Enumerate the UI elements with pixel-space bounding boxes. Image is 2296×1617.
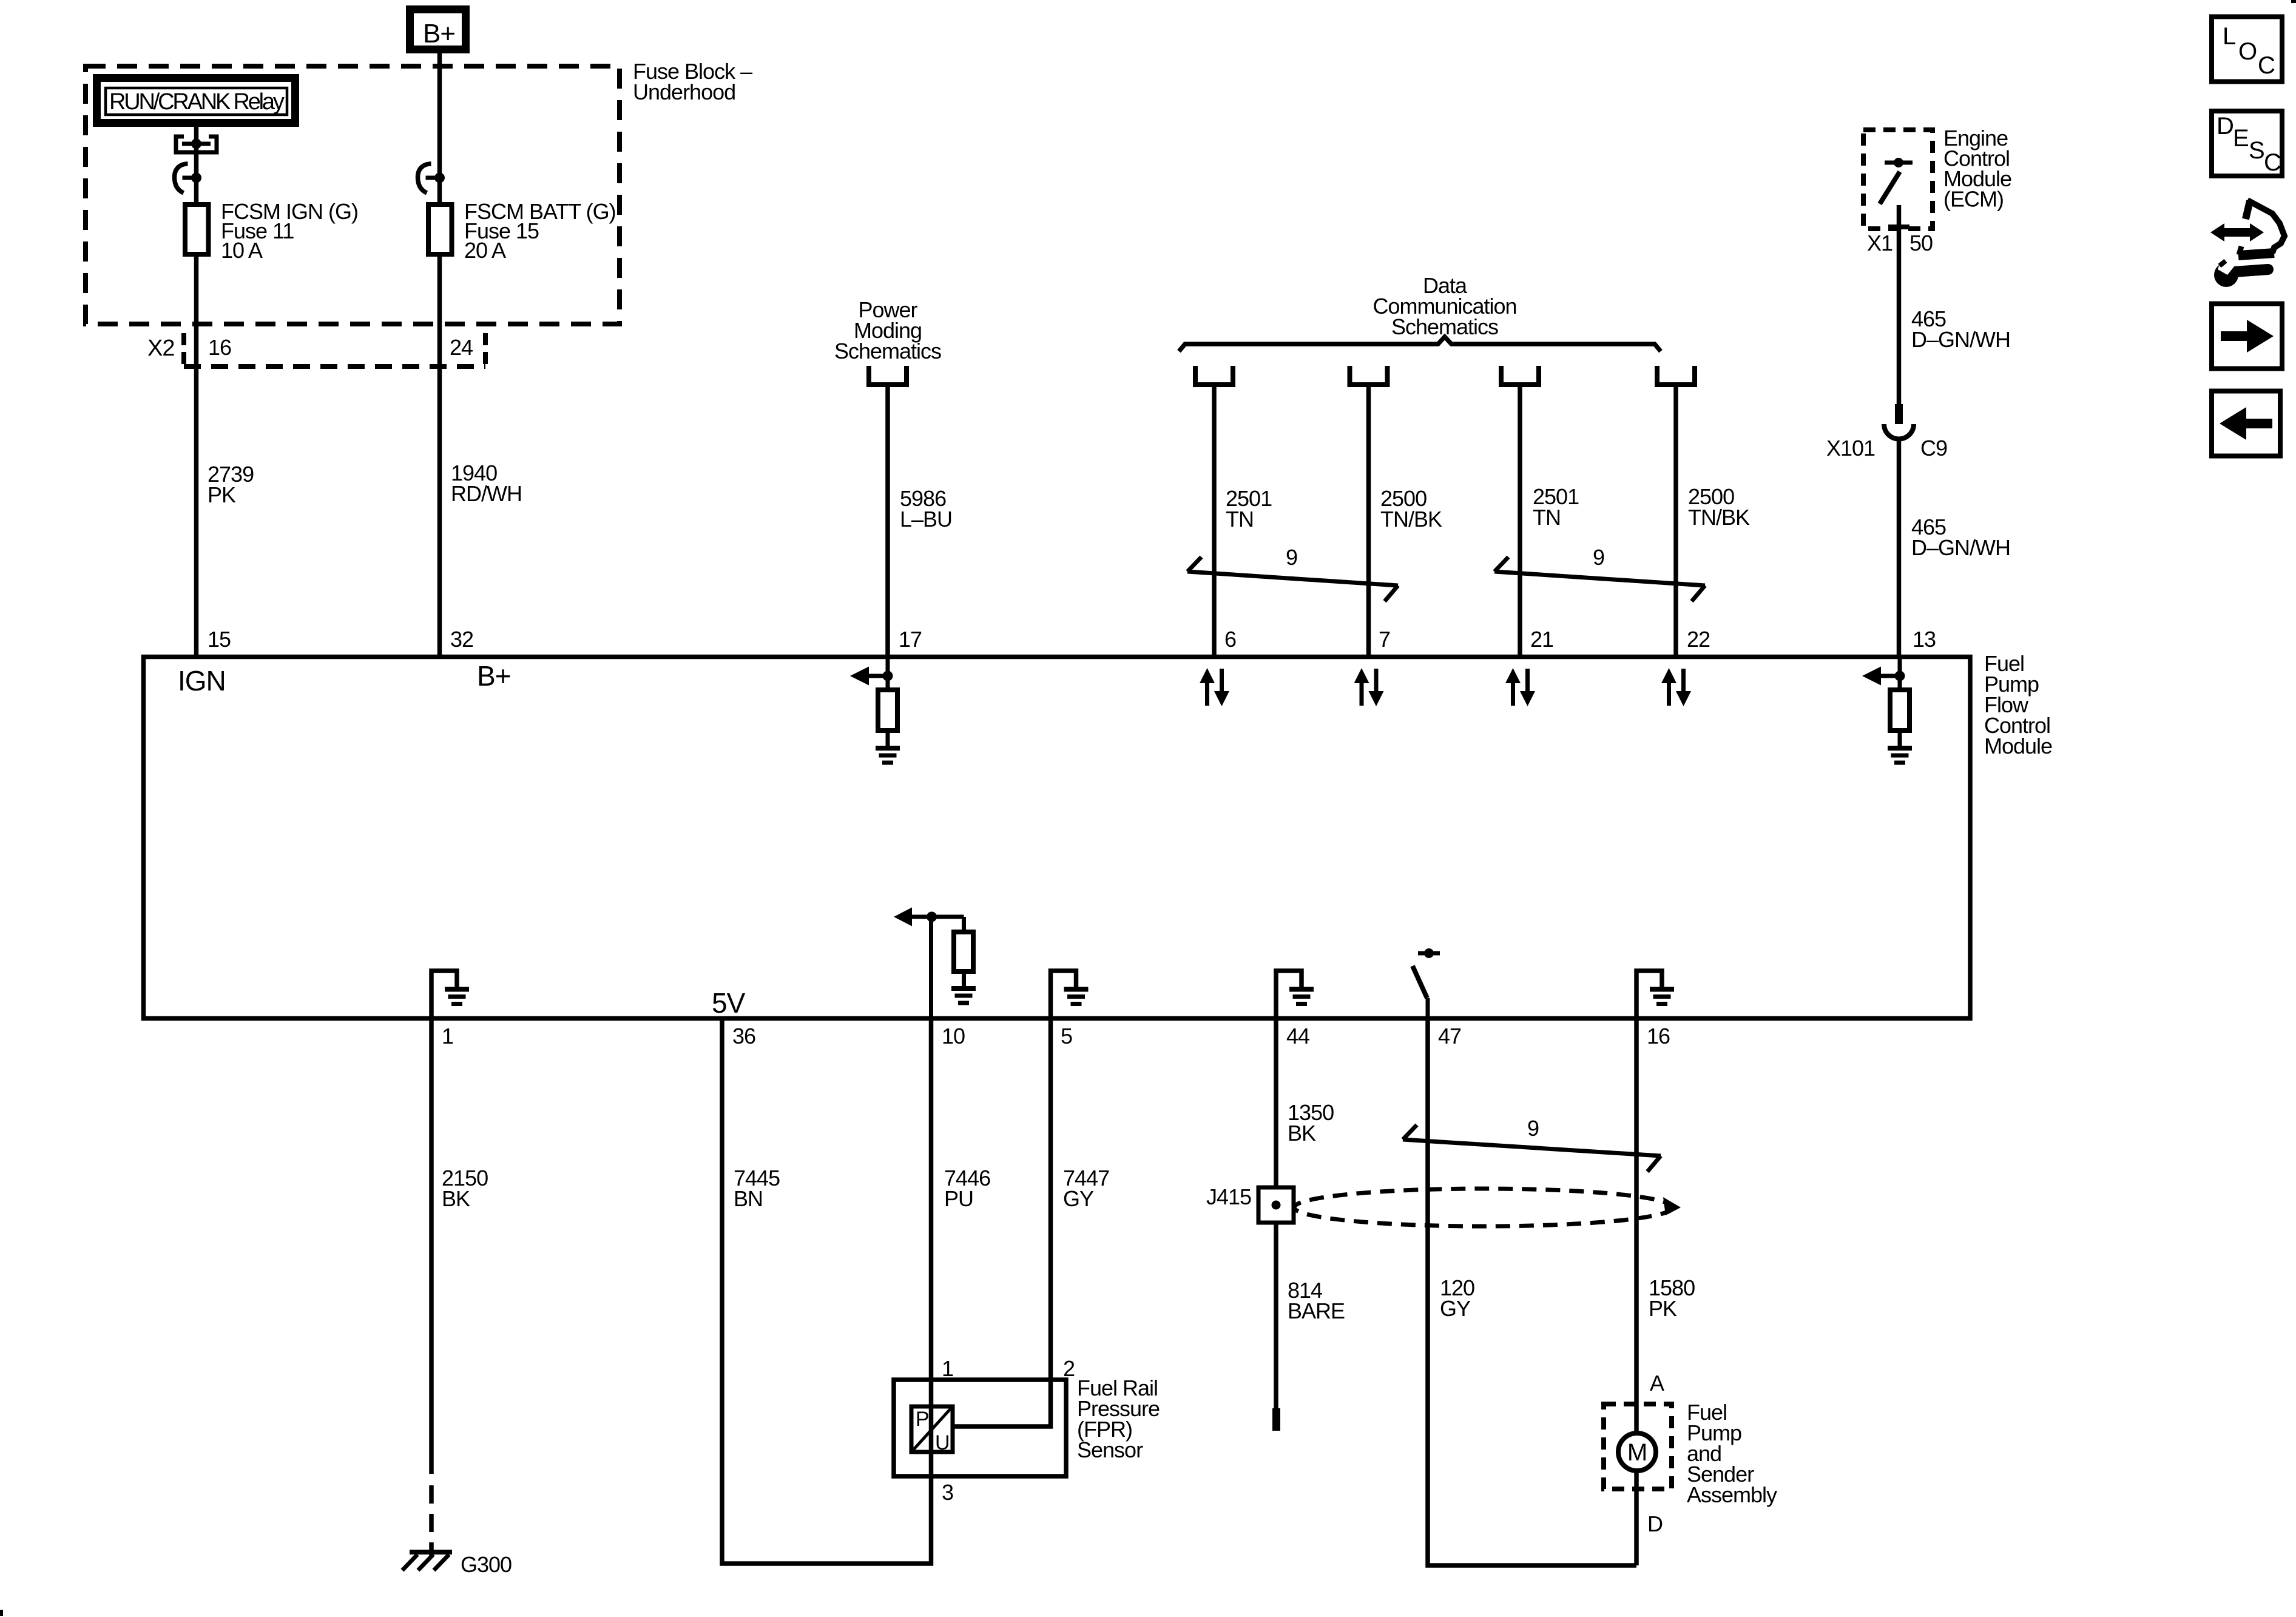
shield drain dashed ellipse — [1294, 1189, 1681, 1226]
wire data comm to pin 22 — [1673, 385, 1678, 657]
wire 2150 BK from pin 1 — [429, 1018, 434, 1557]
inline connector X101 C9 — [1884, 404, 1914, 439]
G300 label — [461, 1552, 512, 1577]
LOC nav box — [2212, 17, 2282, 82]
pin 7 label — [1379, 627, 1390, 652]
svg-text:Sensor: Sensor — [1077, 1437, 1143, 1462]
X1 50 labels — [1867, 231, 1933, 255]
pin 15 label — [208, 627, 231, 652]
off-page connector pin 6 — [1195, 366, 1233, 385]
twisted pair 47-16 label 9 — [1527, 1116, 1539, 1141]
svg-text:TN: TN — [1226, 507, 1254, 532]
pin 22 label — [1687, 627, 1710, 652]
twisted pair 6-7 label 9 — [1286, 545, 1297, 570]
pin 17 internal: arrow, resistor, ground — [850, 659, 900, 763]
wire 5986 L-BU to pin 17 — [885, 385, 890, 657]
data communication brace — [1179, 337, 1661, 351]
twisted pair symbol pins 6-7 — [1187, 557, 1398, 601]
ECM pin tick X1 50 — [1888, 224, 1909, 229]
svg-text:X1: X1 — [1867, 231, 1893, 255]
pin 32 label — [450, 627, 473, 652]
fuse 11 label — [221, 199, 358, 263]
pin 6 internal bidirectional arrows — [1200, 668, 1229, 706]
svg-text:D: D — [1647, 1511, 1663, 1536]
svg-text:PK: PK — [208, 482, 236, 507]
svg-text:5: 5 — [1061, 1024, 1072, 1048]
svg-text:(ECM): (ECM) — [1943, 187, 2004, 212]
wire label 2500 TN/BK (pin 7) — [1380, 486, 1442, 532]
pin 44 label — [1286, 1024, 1309, 1048]
wire label 7447 GY — [1063, 1166, 1109, 1211]
svg-text:1: 1 — [942, 1356, 953, 1381]
svg-text:GY: GY — [1440, 1296, 1471, 1321]
svg-text:TN: TN — [1533, 505, 1561, 530]
svg-text:J415: J415 — [1206, 1184, 1251, 1209]
pin 44 internal ground — [1276, 971, 1314, 1018]
svg-text:Assembly: Assembly — [1687, 1482, 1777, 1507]
wire relay to fuse 11 — [194, 127, 199, 202]
svg-text:X2: X2 — [147, 336, 174, 361]
pin 1 internal ground — [431, 971, 469, 1018]
svg-text:Schematics: Schematics — [834, 339, 941, 363]
svg-text:C: C — [2264, 149, 2281, 176]
off-page connector pin 21 — [1501, 366, 1539, 385]
svg-text:S: S — [2249, 137, 2264, 164]
twisted pair symbol pins 47-16 — [1403, 1125, 1661, 1172]
B+ power terminal box — [410, 10, 466, 50]
Engine Control Module dashed box — [1863, 130, 1933, 229]
wire label 2500 TN/BK (pin 22) — [1688, 484, 1750, 530]
module port label IGN — [178, 665, 226, 697]
svg-text:G300: G300 — [461, 1552, 512, 1577]
svg-text:B+: B+ — [477, 660, 511, 692]
svg-text:IGN: IGN — [178, 665, 226, 697]
wire 1580 PK from pin 16 to fuel pump A — [1634, 1018, 1639, 1565]
FPR sensor label — [1077, 1376, 1160, 1462]
svg-text:5V: 5V — [712, 987, 746, 1019]
svg-text:16: 16 — [208, 335, 231, 360]
relay contact symbol — [176, 137, 217, 152]
ECM label — [1943, 126, 2011, 212]
svg-text:6: 6 — [1224, 627, 1236, 652]
wire data comm to pin 6 — [1212, 385, 1217, 657]
svg-text:24: 24 — [450, 335, 473, 360]
X101 C9 labels — [1826, 436, 1947, 461]
Fuel Pump and Sender Assembly dashed box — [1604, 1404, 1672, 1489]
twisted pair 21-22 label 9 — [1593, 545, 1604, 570]
fuse FSCM BATT Fuse 15 — [428, 204, 452, 254]
svg-text:C: C — [2258, 52, 2275, 79]
wire label 814 BARE — [1288, 1278, 1345, 1323]
wire label 5986 L-BU — [900, 486, 952, 532]
module port label 5V — [712, 987, 746, 1019]
wire 7445 BN from pin 36 to FPR sensor pin 3 — [722, 1018, 931, 1564]
fuse 15 tap hook — [418, 164, 445, 193]
svg-text:9: 9 — [1286, 545, 1297, 570]
wire label 2150 BK — [442, 1166, 488, 1211]
svg-text:B+: B+ — [423, 19, 455, 49]
RUN/CRANK Relay box — [97, 78, 295, 123]
wire B+ feed to fuse 15 — [437, 53, 442, 202]
svg-text:36: 36 — [732, 1024, 755, 1048]
FPR pressure transducer P/U symbol — [911, 1406, 953, 1454]
svg-text:15: 15 — [208, 627, 231, 652]
wire fuse 15 to module pin 32 (1940 RD/WH) — [437, 254, 442, 657]
Power Moding Schematics label — [834, 297, 941, 363]
fuel pump terminal D label — [1647, 1511, 1663, 1536]
X2 connector outline — [184, 333, 485, 366]
FPR sensor pin labels 1 2 3 — [942, 1356, 1075, 1505]
svg-text:BN: BN — [734, 1186, 763, 1211]
wire label 7445 BN — [734, 1166, 780, 1211]
pin 16 internal ground — [1636, 971, 1674, 1018]
pin 5 label — [1061, 1024, 1072, 1048]
ECM internal switch — [1880, 158, 1913, 204]
pin 22 internal bidirectional arrows — [1661, 668, 1691, 706]
svg-text:1: 1 — [442, 1024, 453, 1048]
svg-text:16: 16 — [1647, 1024, 1670, 1048]
svg-text:10 A: 10 A — [221, 238, 263, 263]
wire label 2501 TN (pin 21) — [1533, 484, 1579, 530]
svg-text:10: 10 — [942, 1024, 965, 1048]
wire 814 BARE from J415 — [1272, 1223, 1280, 1431]
fuse 15 label — [464, 199, 616, 263]
svg-text:GY: GY — [1063, 1186, 1094, 1211]
pin 17 label — [899, 627, 922, 652]
svg-text:2: 2 — [1063, 1356, 1075, 1381]
svg-text:3: 3 — [942, 1480, 953, 1505]
fuse 11 tap hook — [175, 164, 202, 193]
svg-text:D–GN/WH: D–GN/WH — [1911, 327, 2010, 352]
twisted pair symbol pins 21-22 — [1494, 557, 1705, 601]
wire data comm to pin 21 — [1518, 385, 1522, 657]
svg-text:TN/BK: TN/BK — [1688, 505, 1750, 530]
wire data comm to pin 7 — [1366, 385, 1371, 657]
svg-text:PK: PK — [1649, 1296, 1677, 1321]
wire 1350 BK from pin 44 — [1274, 1018, 1278, 1187]
ground G300 — [402, 1552, 452, 1570]
J415 label — [1206, 1184, 1251, 1209]
svg-text:Underhood: Underhood — [633, 79, 735, 104]
wire ECM to X101 (465 D-GN/WH) — [1897, 205, 1902, 404]
Data Communication Schematics label — [1373, 273, 1516, 339]
Fuse Block - Underhood dashed box — [86, 66, 620, 324]
svg-text:21: 21 — [1530, 627, 1553, 652]
page corner mark top right — [2291, 0, 2296, 3]
wire label 465 D-GN/WH lower — [1911, 515, 2010, 560]
svg-text:20 A: 20 A — [464, 238, 506, 263]
svg-text:PU: PU — [944, 1186, 973, 1211]
svg-text:BARE: BARE — [1288, 1298, 1345, 1323]
wire label 1350 BK — [1288, 1100, 1334, 1146]
svg-text:L–BU: L–BU — [900, 507, 952, 532]
svg-text:7: 7 — [1379, 627, 1390, 652]
X2 connector labels — [147, 335, 473, 361]
svg-text:D–GN/WH: D–GN/WH — [1911, 535, 2010, 560]
svg-text:U: U — [935, 1431, 950, 1454]
wire 7446 PU from pin 10 to FPR sensor pin 1 — [929, 1018, 934, 1476]
diagnostic car and wrench icon — [2210, 200, 2284, 287]
svg-text:32: 32 — [450, 627, 473, 652]
pin 5 internal ground — [1051, 971, 1089, 1018]
DESC nav box — [2212, 111, 2282, 176]
svg-text:47: 47 — [1438, 1024, 1461, 1048]
svg-text:50: 50 — [1909, 231, 1933, 255]
fuel pump terminal A label — [1650, 1371, 1664, 1396]
svg-text:BK: BK — [1288, 1121, 1316, 1146]
pin 47 label — [1438, 1024, 1461, 1048]
svg-text:P: P — [916, 1408, 929, 1431]
back arrow nav box — [2212, 391, 2280, 456]
svg-text:44: 44 — [1286, 1024, 1309, 1048]
off-page connector power moding — [869, 366, 907, 385]
wire label 2739 PK — [208, 462, 254, 507]
pin 13 internal: arrow, resistor, ground — [1862, 659, 1912, 763]
wire 7447 GY from pin 5 to FPR sensor pin 2 — [953, 1018, 1051, 1426]
wire label 120 GY — [1440, 1275, 1474, 1321]
pin 13 label — [1913, 627, 1936, 652]
Fuel Rail Pressure sensor box — [894, 1380, 1066, 1476]
svg-text:E: E — [2233, 125, 2249, 152]
forward arrow nav box — [2212, 304, 2282, 369]
wire fuse 11 to module pin 15 (2739 PK) — [194, 254, 199, 657]
pin 21 label — [1530, 627, 1553, 652]
pin 10 label — [942, 1024, 965, 1048]
wire label 1580 PK — [1649, 1275, 1695, 1321]
Fuse Block - Underhood label — [633, 59, 752, 104]
svg-text:D: D — [2217, 113, 2234, 140]
module port label B+ — [477, 660, 511, 692]
page corner mark bottom left — [0, 1610, 3, 1616]
wire label 7446 PU — [944, 1166, 990, 1211]
wire label 1940 RD/WH — [451, 461, 522, 506]
fuel pump motor M — [1618, 1433, 1656, 1471]
svg-text:13: 13 — [1913, 627, 1936, 652]
splice J415 — [1258, 1187, 1294, 1223]
pin 36 label — [732, 1024, 755, 1048]
svg-text:17: 17 — [899, 627, 922, 652]
wire label 465 D-GN/WH upper — [1911, 306, 2010, 352]
svg-text:Module: Module — [1984, 734, 2052, 758]
pin 16 label — [1647, 1024, 1670, 1048]
wire 120 GY from pin 47 to fuel pump D — [1428, 1018, 1636, 1565]
pin 21 internal bidirectional arrows — [1505, 668, 1535, 706]
svg-text:22: 22 — [1687, 627, 1710, 652]
wire label 2501 TN (pin 6) — [1226, 486, 1272, 532]
fuse FCSM IGN Fuse 11 — [185, 204, 209, 254]
svg-text:X101: X101 — [1826, 436, 1875, 461]
off-page connector pin 22 — [1657, 366, 1695, 385]
Fuel Pump Flow Control Module label — [1984, 651, 2052, 758]
svg-text:O: O — [2238, 38, 2257, 65]
svg-text:RUN/CRANK Relay: RUN/CRANK Relay — [109, 89, 285, 115]
svg-text:RD/WH: RD/WH — [451, 481, 522, 506]
off-page connector pin 7 — [1350, 366, 1388, 385]
pin 1 label — [442, 1024, 453, 1048]
Fuel Pump Flow Control Module box — [144, 657, 1971, 1019]
svg-text:9: 9 — [1527, 1116, 1539, 1141]
svg-text:TN/BK: TN/BK — [1380, 507, 1442, 532]
fuel pump label — [1687, 1400, 1777, 1507]
svg-text:M: M — [1627, 1439, 1647, 1466]
pin 6 label — [1224, 627, 1236, 652]
pin 47 internal switch — [1413, 948, 1440, 1018]
svg-text:C9: C9 — [1920, 436, 1947, 461]
svg-text:A: A — [1650, 1371, 1664, 1396]
wire X101 to pin 13 (465 D-GN/WH) — [1897, 438, 1902, 657]
svg-text:BK: BK — [442, 1186, 470, 1211]
pin 10 internal: arrow, junction, resistor, ground — [894, 908, 976, 1019]
svg-text:L: L — [2223, 23, 2235, 50]
pin 7 internal bidirectional arrows — [1354, 668, 1384, 706]
svg-text:9: 9 — [1593, 545, 1604, 570]
